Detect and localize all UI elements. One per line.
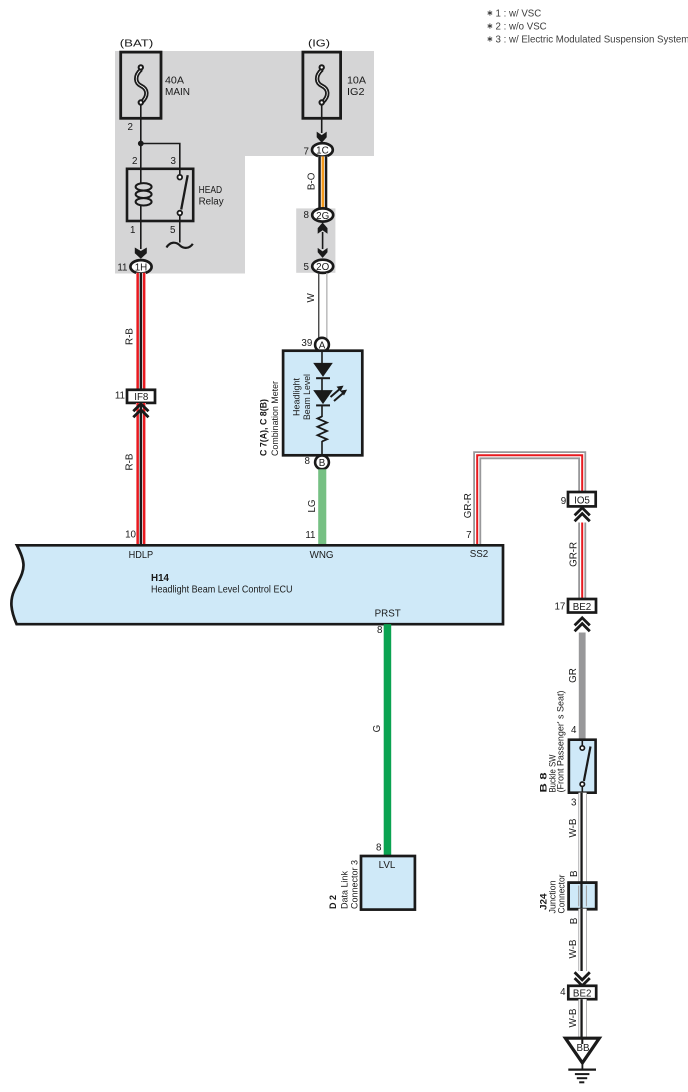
connector circle A (315, 338, 329, 352)
svg-text:HDLP: HDLP (129, 550, 154, 561)
background shading (power supply area) (115, 51, 374, 274)
svg-text:MAIN: MAIN (165, 87, 190, 98)
wire B-O from 1C to 2G (318, 156, 328, 208)
svg-text:Combination Meter: Combination Meter (270, 381, 280, 456)
pin 17 of BE2 (554, 602, 565, 613)
svg-text:IO5: IO5 (574, 496, 590, 507)
connector 2G (312, 208, 333, 221)
pin 8 of D2 (376, 843, 382, 854)
arrow into connector 1C (317, 132, 327, 143)
wire diode to LED (321, 379, 323, 391)
pin 5 of 2O (304, 262, 310, 273)
wire resistor to B (321, 441, 323, 456)
diode D1 (313, 363, 333, 378)
arrow down above 2O (318, 248, 328, 258)
pin 8 of ECU PRST (377, 625, 383, 636)
wire fuse IG2 to 1C (321, 105, 323, 134)
svg-text:Headlight Beam Level Control E: Headlight Beam Level Control ECU (151, 585, 293, 596)
connector 1H (130, 260, 151, 274)
ground symbol (568, 1063, 596, 1082)
svg-text:39: 39 (301, 338, 312, 349)
pin 4 of BE2 lower (560, 987, 566, 998)
background shading (2G-2O connector area) (296, 208, 335, 272)
wire color label B-O (307, 172, 318, 190)
svg-text:2: 2 (128, 122, 133, 133)
wire R-B from IF8 to ECU pin 10 (136, 403, 146, 546)
svg-text:W-B: W-B (568, 1008, 579, 1027)
wire color label W-B lower (568, 1008, 579, 1027)
svg-text:Connector 3: Connector 3 (350, 860, 360, 909)
svg-text:IF8: IF8 (134, 392, 149, 403)
label C 7(A), C 8(B) Combination Meter (259, 381, 281, 456)
svg-text:(Front Passenger' s Seat): (Front Passenger' s Seat) (555, 691, 565, 793)
connector D2 box (361, 856, 415, 910)
svg-text:5: 5 (170, 225, 176, 236)
wire GR-R from ECU SS2 to IO5 (477, 455, 582, 547)
svg-text:3 : w/ Electric Modulated Susp: 3 : w/ Electric Modulated Suspension Sys… (496, 34, 688, 45)
wire LED to resistor (321, 406, 323, 417)
svg-text:4: 4 (560, 987, 566, 998)
wire relay pin1 down (140, 221, 142, 249)
svg-text:2O: 2O (316, 262, 329, 273)
svg-text:LVL: LVL (379, 860, 396, 871)
svg-text:GR-R: GR-R (569, 542, 580, 567)
arrow into connector 1H (135, 248, 147, 259)
continuation chevrons below BE2 (575, 618, 590, 631)
svg-text:2 : w/o VSC: 2 : w/o VSC (496, 21, 547, 32)
pin 3 of buckle switch (571, 798, 577, 809)
legend note *2 (488, 21, 547, 32)
pin 8 of meter B (305, 456, 311, 467)
wire color label LG (307, 499, 318, 512)
arrow up below 2G (318, 223, 328, 234)
pin 9 of IO5 (561, 496, 566, 507)
svg-text:17: 17 (554, 602, 565, 613)
wire color label GR-R upper (463, 493, 474, 518)
svg-text:8: 8 (376, 843, 382, 854)
ECU H14 box (11, 545, 503, 624)
pin 8 of 2G (304, 210, 310, 221)
svg-text:Headlight: Headlight (291, 378, 301, 416)
pin 7 of 1C (304, 147, 309, 158)
fuse 40A MAIN box (121, 52, 161, 118)
svg-text:11: 11 (305, 530, 315, 541)
svg-text:9: 9 (561, 496, 566, 507)
svg-text:BB: BB (576, 1043, 590, 1054)
svg-text:Relay: Relay (199, 197, 224, 208)
pin 2 relay (132, 156, 137, 167)
label H14 Headlight Beam Level Control ECU (151, 573, 293, 596)
svg-text:8: 8 (377, 625, 383, 636)
relay switch contact (178, 169, 188, 221)
svg-text:11: 11 (117, 263, 127, 274)
wire color label W-B upper (568, 818, 579, 837)
svg-text:7: 7 (304, 147, 309, 158)
svg-text:HEAD: HEAD (199, 185, 223, 196)
svg-text:10: 10 (125, 530, 136, 541)
svg-text:(IG): (IG) (308, 39, 330, 50)
svg-text:D 2: D 2 (328, 895, 338, 909)
svg-text:B: B (569, 870, 580, 877)
continuation chevrons above BE2 lower (575, 972, 590, 985)
continuation chevrons below IF8 (133, 404, 148, 418)
resistor (318, 416, 328, 441)
connector BE2 upper (568, 599, 596, 613)
wire relay pin5 stub (179, 221, 181, 243)
fuse 40A MAIN element (136, 65, 146, 105)
connector BE2 lower (568, 986, 596, 1000)
pin 11 of ECU WNG (305, 530, 315, 541)
wire through J24 (579, 883, 587, 909)
label D 2 Data Link Connector 3 (328, 860, 360, 909)
ground point BB triangle (565, 1038, 599, 1063)
svg-text:SS2: SS2 (470, 549, 489, 560)
connector 2O (312, 260, 333, 273)
net label HDLP (129, 550, 154, 561)
svg-text:(BAT): (BAT) (120, 39, 154, 50)
label HEAD Relay (199, 185, 224, 208)
wire color label W-B middle (568, 939, 579, 958)
wire LG from B to ECU pin 11 (318, 469, 326, 545)
svg-text:1: 1 (130, 225, 135, 236)
svg-text:R-B: R-B (125, 453, 136, 470)
svg-text:W-B: W-B (568, 939, 579, 958)
pin 3 relay (171, 156, 177, 167)
pin 5 relay (170, 225, 176, 236)
net label SS2 (470, 549, 489, 560)
wire color label R-B lower (125, 453, 136, 470)
junction connector J24 box (569, 883, 597, 910)
relay HEAD box (127, 169, 193, 221)
fuse 10A IG2 element (317, 65, 327, 105)
pin 4 of buckle switch (571, 725, 577, 736)
wire between 2G and 2O (322, 232, 324, 249)
wire fuse MAIN to junction (140, 105, 142, 169)
wire color label G (372, 725, 383, 733)
node (IG) label (308, 39, 330, 50)
svg-text:3: 3 (571, 798, 577, 809)
svg-text:Data Link: Data Link (340, 870, 350, 909)
wire GR from BE2 to buckle switch (579, 633, 586, 741)
pin 39 of meter (301, 338, 312, 349)
svg-text:C 7(A), C 8(B): C 7(A), C 8(B) (259, 399, 269, 456)
legend note *1 (488, 8, 542, 19)
svg-text:LG: LG (307, 499, 318, 512)
node (BAT) label (120, 39, 154, 50)
svg-text:H14: H14 (151, 573, 170, 584)
svg-text:2: 2 (132, 156, 137, 167)
buckle switch B8 box (569, 740, 596, 793)
svg-text:W: W (306, 293, 317, 303)
svg-text:2G: 2G (316, 211, 329, 222)
svg-text:8: 8 (305, 456, 311, 467)
wire continuation squiggle (167, 243, 193, 248)
svg-text:W-B: W-B (568, 818, 579, 837)
wire color label W (306, 293, 317, 303)
value label 10A IG2 (347, 76, 367, 99)
combination meter box (283, 351, 362, 456)
svg-text:Beam Level: Beam Level (302, 374, 312, 420)
junction dot (138, 141, 144, 147)
pin B of J24 upper (569, 870, 580, 877)
net label PRST (375, 609, 401, 620)
svg-text:R-B: R-B (125, 328, 136, 345)
connector IO5 (568, 492, 596, 507)
pin B of J24 lower (569, 917, 580, 924)
wire W-B from buckle switch to J24 (578, 793, 587, 883)
wire color label R-B (125, 328, 136, 345)
svg-text:1 : w/ VSC: 1 : w/ VSC (496, 8, 542, 19)
svg-text:WNG: WNG (310, 550, 334, 561)
LED indicator (313, 386, 347, 406)
label B 8 Buckle SW (Front Passenger's Seat) (538, 691, 565, 793)
label J24 Junction Connector (539, 875, 567, 914)
relay coil (136, 169, 152, 221)
wire G from PRST to D2 (384, 624, 392, 856)
pin 1 relay (130, 225, 135, 236)
fuse 10A IG2 box (303, 52, 341, 118)
svg-text:7: 7 (466, 530, 471, 541)
svg-text:B-O: B-O (307, 172, 318, 190)
pin 10 of ECU (125, 530, 136, 541)
svg-text:5: 5 (304, 262, 310, 273)
svg-text:8: 8 (304, 210, 310, 221)
continuation chevrons below IO5 (575, 508, 590, 521)
wire W from 2O to meter pin A (318, 273, 327, 338)
svg-text:40A: 40A (165, 76, 185, 87)
svg-text:IG2: IG2 (347, 87, 365, 98)
svg-text:GR: GR (568, 668, 579, 683)
value label 40A MAIN (165, 76, 190, 99)
wire color label GR (568, 668, 579, 683)
pin 2 fuse MAIN (128, 122, 133, 133)
svg-text:PRST: PRST (375, 609, 401, 620)
svg-text:Connector: Connector (556, 875, 566, 914)
pin 11 of 1H (117, 263, 127, 274)
pin 11 of IF8 (115, 391, 125, 402)
net label WNG (310, 550, 334, 561)
net label LVL (379, 860, 396, 871)
svg-text:BE2: BE2 (573, 602, 592, 613)
wire inside meter A to diode (321, 352, 323, 364)
wire W-B from BE2 to ground (578, 999, 587, 1038)
label Headlight Beam Level (291, 374, 312, 420)
legend note *3 (488, 34, 688, 45)
buckle switch contact (580, 740, 590, 793)
svg-text:10A: 10A (347, 76, 367, 87)
wire color label GR-R lower (569, 542, 580, 567)
svg-text:1H: 1H (135, 263, 148, 274)
connector circle B (315, 455, 329, 469)
wire W-B from J24 to BE2 lower (578, 909, 587, 971)
svg-text:3: 3 (171, 156, 177, 167)
svg-text:GR-R: GR-R (463, 493, 474, 518)
svg-text:1C: 1C (316, 146, 329, 157)
wire R-B from 1H to IF8 (136, 273, 146, 391)
svg-text:BE2: BE2 (573, 989, 592, 1000)
svg-text:G: G (372, 725, 383, 733)
pin 7 of ECU SS2 (466, 530, 471, 541)
svg-text:4: 4 (571, 725, 577, 736)
svg-text:B: B (319, 458, 326, 469)
connector IF8 (127, 390, 155, 403)
wire GR-R from IO5 to BE2 (578, 523, 586, 600)
wire branch to relay pin 3 (141, 144, 180, 169)
svg-text:11: 11 (115, 391, 125, 402)
connector 1C (312, 143, 333, 157)
